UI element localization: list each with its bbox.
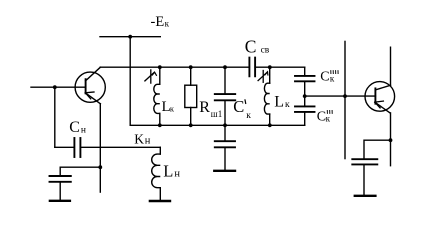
svg-text:C: C: [233, 97, 244, 116]
wire supply feed down to bottom rail: [129, 37, 131, 126]
wire Q2 base feed vertical: [344, 41, 346, 158]
wire collector top bus: [100, 66, 249, 68]
node base feed dot: [343, 94, 347, 98]
svg-text:к: к: [326, 113, 331, 123]
wire right column top: [304, 67, 306, 76]
label C''k bottom: [317, 109, 332, 124]
capacitor C'_k: [215, 67, 235, 125]
inductor L_k2 (variable): [258, 67, 270, 125]
label L_n: [163, 161, 180, 180]
wire emitter junction 2 to bypass cap 2: [364, 140, 391, 159]
inductor L_n: [152, 147, 161, 200]
label -Ek: [151, 14, 170, 30]
node base junction dot: [53, 85, 57, 89]
node supply dot: [128, 35, 132, 39]
node bus dot Lk1: [158, 65, 162, 69]
svg-text:св: св: [261, 46, 270, 56]
capacitor C_n (neutralizing): [55, 138, 81, 157]
wire bottom rail: [130, 124, 305, 126]
node bus dot C'k: [223, 65, 227, 69]
svg-text:к: к: [246, 111, 251, 121]
ground for L_n: [150, 200, 170, 202]
capacitor C''k (bottom divider): [295, 96, 315, 125]
transistor Q2: [365, 82, 395, 113]
ground for bypass 2: [355, 195, 376, 197]
svg-text:L: L: [274, 93, 284, 110]
wire divider mid to Q2 base: [305, 95, 376, 97]
ground for decoupling cap: [214, 170, 235, 172]
svg-text:-E: -E: [151, 14, 165, 30]
label C_n: [69, 119, 86, 136]
svg-text:C: C: [320, 69, 329, 84]
capacitor C_sv (coupling): [249, 58, 304, 77]
node rail dot Lk2: [268, 123, 272, 127]
wire Q2 collector up: [390, 47, 392, 85]
svg-text:K: K: [134, 131, 144, 146]
node rail dot C'k: [223, 123, 227, 127]
label C_sv: [245, 37, 270, 57]
label R_sh1: [199, 99, 222, 119]
svg-text:н: н: [81, 125, 86, 135]
node rail dot Rsh1: [189, 123, 193, 127]
capacitor emitter bypass 2: [352, 159, 377, 194]
node bus dot Rsh1: [189, 65, 193, 69]
svg-text:C: C: [69, 119, 80, 136]
svg-text:к: к: [330, 74, 335, 84]
node tank2 top dot: [268, 65, 272, 69]
wire Q1 emitter down: [99, 104, 101, 192]
svg-text:C: C: [245, 37, 257, 57]
wire emitter junction to bypass cap 1: [60, 167, 100, 176]
label K_n: [134, 131, 151, 146]
svg-text:L: L: [163, 161, 173, 180]
node Q2 emitter junction: [389, 138, 393, 142]
capacitor decoupling (below C'k): [215, 125, 235, 169]
node divider mid dot: [303, 94, 307, 98]
wire K_n line from Cn to Ln: [81, 146, 160, 148]
svg-text:R: R: [199, 99, 210, 116]
svg-text:к: к: [165, 19, 170, 29]
label C'_k: [233, 97, 251, 121]
svg-text:к: к: [285, 100, 290, 110]
label L_k1: [162, 99, 175, 115]
svg-text:ш1: ш1: [211, 109, 222, 119]
ground for bypass 1: [50, 200, 70, 202]
node rail dot Lk1: [158, 123, 162, 127]
svg-text:н: н: [174, 168, 180, 179]
inductor L_k1 (variable): [145, 67, 160, 125]
transistor Q1: [75, 67, 105, 104]
capacitor emitter bypass 1: [50, 176, 71, 200]
label L_k2: [274, 93, 290, 110]
wire supply rail -Ek: [100, 36, 160, 38]
svg-text:к: к: [170, 103, 175, 113]
node Q1 emitter junction: [98, 165, 102, 169]
wire Q2 emitter down: [390, 113, 392, 166]
wire base junction down to Cn: [54, 87, 56, 147]
svg-text:н: н: [145, 135, 151, 146]
label C'''k top: [320, 69, 338, 84]
resistor R_sh1: [185, 67, 197, 125]
wire input base line: [31, 86, 86, 88]
capacitor C'''k (top divider): [295, 76, 315, 96]
